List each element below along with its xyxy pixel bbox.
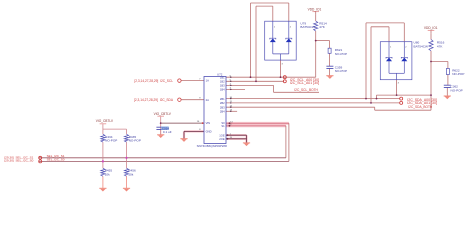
svg-text:1B1: 1B1: [220, 75, 225, 79]
svg-text:S1: S1: [221, 124, 225, 128]
svg-text:VDD_IO1: VDD_IO1: [308, 7, 322, 11]
svg-text:2A: 2A: [206, 98, 209, 102]
svg-text:10k: 10k: [128, 172, 133, 176]
svg-text:[2,3,14,27,28,29] I2C_SCL: [2,3,14,27,28,29] I2C_SCL: [134, 79, 173, 83]
svg-text:1B4: 1B4: [220, 88, 225, 92]
svg-text:NO-POP: NO-POP: [335, 52, 347, 56]
svg-text:GND: GND: [206, 130, 212, 134]
svg-text:VIO_CBTLV: VIO_CBTLV: [154, 112, 172, 116]
svg-text:2OE: 2OE: [219, 137, 225, 141]
svg-text:NO-POP: NO-POP: [105, 139, 117, 143]
svg-text:[2,3,14,27,28,29] I2C_SDA: [2,3,14,27,28,29] I2C_SDA: [134, 98, 174, 102]
svg-text:10k: 10k: [105, 172, 110, 176]
svg-text:NO-POP: NO-POP: [451, 88, 463, 92]
svg-text:47K: 47K: [319, 25, 325, 29]
svg-text:2B4: 2B4: [220, 110, 225, 114]
svg-text:1A: 1A: [206, 79, 209, 83]
svg-text:I2C_SDA_BOTH: I2C_SDA_BOTH: [408, 105, 433, 109]
svg-text:SEL_I2C_S0: SEL_I2C_S0: [47, 158, 65, 162]
svg-text:[29,30] SEL_I2C_S0: [29,30] SEL_I2C_S0: [4, 159, 33, 163]
svg-text:VIN: VIN: [206, 121, 211, 125]
svg-text:NO-POP: NO-POP: [129, 139, 141, 143]
svg-text:C314: C314: [162, 127, 170, 131]
svg-text:I2C_SCL_BOTH: I2C_SCL_BOTH: [294, 88, 318, 92]
svg-text:2B1: 2B1: [220, 97, 225, 101]
svg-text:BAT54CW: BAT54CW: [300, 25, 314, 29]
svg-text:2B3: 2B3: [220, 105, 225, 109]
svg-text:1B2: 1B2: [220, 80, 225, 84]
svg-text:1B3: 1B3: [220, 84, 225, 88]
svg-text:BAT54CW: BAT54CW: [414, 44, 428, 48]
svg-text:VDD_IO1: VDD_IO1: [424, 26, 438, 30]
svg-text:1OE: 1OE: [219, 133, 225, 137]
svg-text:NO-POP: NO-POP: [335, 69, 347, 73]
svg-text:I2C_SCL_A01 [30]: I2C_SCL_A01 [30]: [290, 81, 319, 85]
svg-text:NO-POP: NO-POP: [452, 72, 464, 76]
svg-text:47K: 47K: [437, 44, 443, 48]
svg-text:SN74CB3Q3253PWR: SN74CB3Q3253PWR: [197, 144, 228, 148]
svg-text:VIO_CBTLV: VIO_CBTLV: [96, 119, 114, 123]
svg-text:2B2: 2B2: [220, 101, 225, 105]
